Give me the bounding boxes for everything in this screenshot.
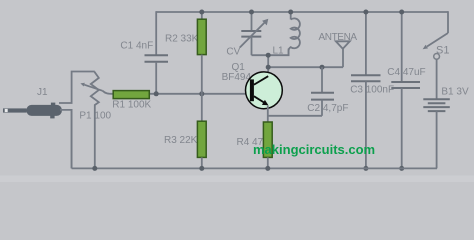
wire: R2 bottom lead [201,55,203,94]
node: P1 ground junction [92,166,97,171]
inductor L1 [289,18,300,55]
wire: CV bottom lead [251,37,253,56]
node: C4 ground junction [399,166,404,171]
wire: C2 top lead [321,67,323,93]
wire: C4 bottom lead [401,88,403,168]
wire: bottom ground rail (left corner) [71,109,73,168]
wire: J1 tip to P1 top [59,72,95,104]
wire: C2 bottom lead [321,100,323,116]
antenna [336,41,350,67]
node: R2 top rail junction [199,10,204,15]
resistor R3 [197,121,206,157]
switch S1 [423,33,448,59]
wire: tank bottom [252,49,289,56]
svg-text:C3 100nF: C3 100nF [350,85,394,96]
node: R3 ground junction [199,166,204,171]
wire: C3 bottom lead [365,81,367,168]
transistor Q1 [246,72,283,109]
battery B1 [423,99,450,111]
wire: base wire from R1 to Q1 base [149,93,251,95]
wire: rail drop to S1 [447,11,449,33]
connector J1 audio plug [3,103,62,119]
node: L1 top rail junction [288,10,293,15]
node: C3 top rail junction [363,10,368,15]
wire: L1 top lead [290,12,292,20]
svg-text:B1 3V: B1 3V [441,87,469,98]
resistor R4 [263,122,272,157]
svg-text:R3 22K: R3 22K [164,135,198,146]
node: R2/R3/base junction [199,91,204,96]
node: CV top rail junction [249,10,254,15]
svg-text:C2 4,7pF: C2 4,7pF [307,103,348,114]
svg-text:CV: CV [226,47,240,58]
variable capacitor CV [240,19,268,48]
capacitor C3 [351,75,381,81]
svg-text:L1: L1 [273,45,285,56]
resistor R1 [113,91,149,99]
svg-text:C4 47uF: C4 47uF [387,67,425,78]
wire: S1 to battery [436,59,438,99]
wire: C3 top lead [365,12,367,75]
node: C4 top rail junction [399,10,404,15]
wire: top supply rail [156,11,448,13]
wire: J1 sleeve down to ground rail [60,110,72,168]
node: collector/antenna tee [266,65,271,70]
node: tank/collector junction [266,53,271,58]
capacitor C4 [391,82,420,88]
wire: collector vertical [267,55,269,77]
wire: R2 top lead [201,12,203,20]
capacitor C1 [145,55,169,62]
node: C3 ground junction [363,166,368,171]
wire: C4 top lead [401,12,403,82]
svg-text:R1 100K: R1 100K [112,99,151,110]
node: C2 tee [320,65,325,70]
wire: R3 bottom lead [201,157,203,168]
wire: emitter vertical [267,106,269,123]
potentiometer P1 zigzag [91,72,99,169]
svg-text:C1 4nF: C1 4nF [120,41,153,52]
wire: battery to ground rail [72,111,437,168]
wire: emitter to C2 [268,115,322,117]
node: C1/base junction [154,91,159,96]
node: R4 ground junction [265,166,270,171]
svg-text:R2 33K: R2 33K [165,34,199,45]
wire: collector to antenna [268,66,343,68]
capacitor C2 [311,93,334,100]
wire: R4 bottom lead [267,157,269,168]
resistor R2 [197,19,206,54]
potentiometer P1 wiper arrow [80,83,113,94]
wire: rail drop to C1 [155,11,157,55]
svg-text:makingcircuits.com: makingcircuits.com [253,142,375,157]
wire: CV top lead [251,12,253,31]
wire: R3 top lead [201,94,203,122]
svg-text:J1: J1 [37,87,48,98]
wire: C1 bottom lead to base node [155,62,157,94]
bottom light strip [0,176,474,183]
